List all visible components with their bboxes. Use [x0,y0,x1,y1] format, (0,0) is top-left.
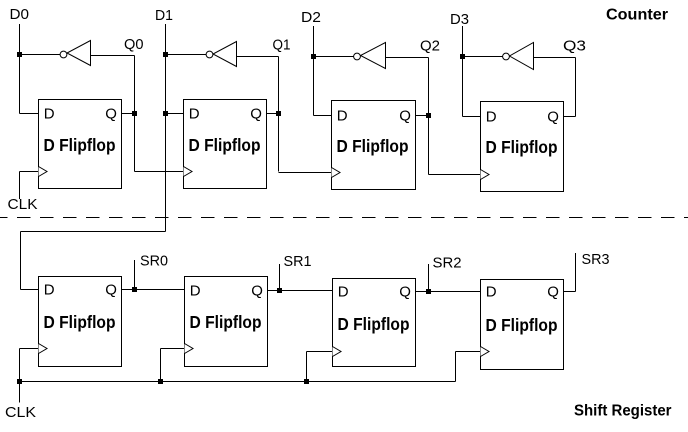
junction D3/inverter U4 output [460,54,465,59]
junction D0/inverter U1 output [17,52,22,57]
wire FF3 Q output [416,115,429,117]
D flip-flop U8 (counter bit3) [481,102,564,192]
junction clock bus / SR FF2 riser [158,379,163,384]
svg-text:D Flipflop: D Flipflop [44,312,116,332]
svg-text:SR0: SR0 [140,253,168,270]
junction D2/inverter U3 output [311,54,316,59]
wire SR FF4 Q output [564,291,576,293]
svg-text:D Flipflop: D Flipflop [486,137,558,157]
junction D1/FF2 D input [163,111,168,116]
wire into FF1 D input [20,113,39,115]
svg-text:Q: Q [547,284,559,301]
svg-text:D: D [338,284,349,301]
wire CLK stub [19,172,21,200]
svg-text:D: D [189,106,200,123]
svg-text:Q: Q [250,106,262,123]
wire into FF2 D input [166,113,184,115]
wire clock riser SR FF3 [306,352,308,382]
wire SR FF1 Q to SR FF2 D [122,289,185,291]
wire Q1 vertical down to FF3 clock [278,57,280,172]
svg-text:Q2: Q2 [420,38,440,55]
wire D1 vertical (feeds FF2 D and shift register) [165,24,167,232]
junction SR0 [132,287,137,292]
wire into SR FF1 D input [21,289,39,291]
wire SR1 tap vertical [279,264,281,291]
svg-text:D1: D1 [155,7,173,24]
wire Q2 to FF4 clock input [429,174,481,176]
wire U4 input from Q vertical [534,57,576,59]
svg-text:D: D [190,283,201,300]
wire CLK into FF1 clock [20,171,39,173]
svg-text:D Flipflop: D Flipflop [338,314,410,334]
svg-text:CLK: CLK [8,196,38,213]
junction SR1 [277,288,282,293]
wire FF1 Q output [122,113,135,115]
svg-text:SR3: SR3 [582,251,610,268]
wire U2 input from Q vertical [237,56,279,58]
svg-text:Counter: Counter [606,7,668,24]
svg-text:SR2: SR2 [433,255,462,272]
wire shift-register clock bus [20,381,456,383]
junction Q0 [132,111,137,116]
wire clock into SR FF3 [307,351,333,353]
svg-text:Q: Q [251,283,263,300]
svg-text:D: D [486,284,497,301]
svg-text:Q: Q [399,284,411,301]
inverter U4 (NOT gate) [503,43,534,70]
svg-text:SR1: SR1 [284,253,312,270]
svg-text:D: D [337,108,348,125]
D flip-flop U9 (shift reg bit0) [39,277,122,367]
wire clock into SR FF2 [161,348,185,350]
svg-text:D2: D2 [301,9,321,26]
wire Q2 vertical down to FF4 clock [428,58,430,175]
svg-text:D0: D0 [10,6,30,23]
junction clock bus / SR FF3 riser [304,379,309,384]
wire FF2 Q output [267,113,279,115]
junction SR2 [426,289,431,294]
svg-text:D Flipflop: D Flipflop [44,135,116,155]
svg-text:D: D [486,109,497,126]
wire SR FF3 Q to SR FF4 D [416,291,481,293]
svg-text:D Flipflop: D Flipflop [189,135,261,155]
wire CLK stub (shift register) [19,382,21,403]
svg-text:Q: Q [105,106,117,123]
D flip-flop U7 (counter bit2) [332,101,416,190]
wire U1 input from Q vertical [91,55,135,57]
wire SR FF2 Q to SR FF3 D [268,290,333,292]
wire SR3 tap vertical [575,253,577,292]
wire U3 input from Q vertical [386,57,429,59]
wire into FF3 D input [314,115,332,117]
svg-text:Q3: Q3 [563,38,586,55]
junction clock bus / CLK [17,379,22,384]
wire clock into SR FF1 [20,348,39,350]
wire into FF4 D input [463,116,481,118]
wire U3 output to D line [314,56,354,58]
wire D2 vertical to FF3 D input [313,26,315,116]
junction Q2 [426,113,431,118]
dashed divider line between counter and shift register [0,217,688,219]
D flip-flop U12 (shift reg bit3) [481,280,564,370]
svg-text:D: D [44,282,55,299]
svg-text:CLK: CLK [5,404,36,421]
svg-text:Q: Q [547,109,559,126]
svg-text:D Flipflop: D Flipflop [337,136,409,156]
wire D0 vertical to FF1 D input [19,24,21,114]
wire D3 vertical to FF4 D input [462,26,464,117]
wire Q0 vertical down to FF2 clock [134,56,136,172]
junction D1/inverter U2 output [163,52,168,57]
svg-text:Q: Q [105,282,117,299]
wire U4 output to D line [463,56,503,58]
svg-text:D Flipflop: D Flipflop [486,315,558,335]
wire SR0 tap vertical [134,260,136,290]
inverter U3 (NOT gate) [354,43,386,69]
wire Q3 vertical up to inverter U4 input [575,58,577,117]
wire Q1 to FF3 clock input [279,172,332,174]
svg-text:Q1: Q1 [273,37,291,54]
wire clock riser SR FF1 [19,349,21,382]
inverter U1 (NOT gate) [60,41,90,66]
wire clock riser SR FF4 [455,352,457,382]
wire FF4 Q output [564,116,576,118]
junction Q1 [276,111,281,116]
D flip-flop U11 (shift reg bit2) [333,279,416,367]
D flip-flop U5 (counter bit0) [39,100,122,189]
wire D1 feed horizontal [21,231,166,233]
svg-text:D: D [44,106,55,123]
wire SR2 tap vertical [428,264,430,292]
svg-text:Q: Q [399,108,411,125]
D flip-flop U10 (shift reg bit1) [185,277,268,367]
svg-text:Shift Register: Shift Register [574,403,672,420]
wire clock riser SR FF2 [160,349,162,382]
svg-text:D Flipflop: D Flipflop [190,312,262,332]
wire U2 output to D line [166,54,207,56]
wire clock into SR FF4 [456,351,481,353]
wire D1 feed vertical [20,232,22,290]
svg-text:Q0: Q0 [124,36,144,53]
wire U1 output to D line [20,54,61,56]
inverter U2 (NOT gate) [206,42,236,67]
svg-text:D3: D3 [450,11,469,28]
D flip-flop U6 (counter bit1) [184,100,267,189]
wire Q0 to FF2 clock input [135,171,184,173]
